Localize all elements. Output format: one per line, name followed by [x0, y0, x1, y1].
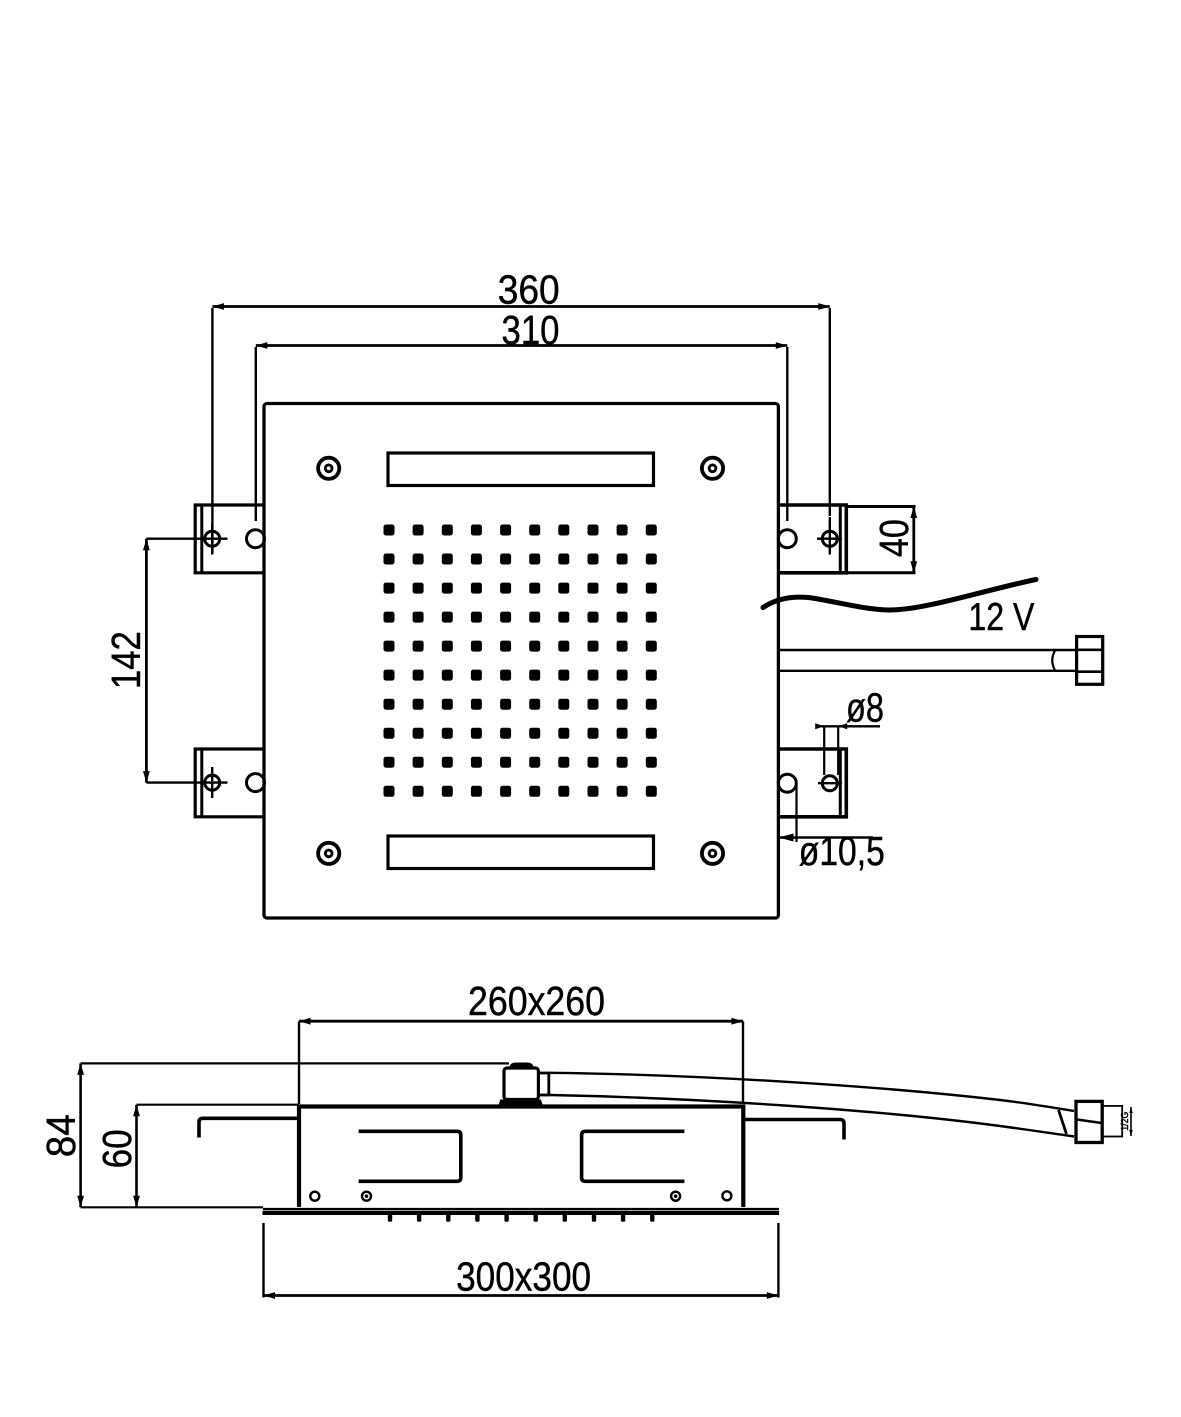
left wiring slot (open left) — [359, 1131, 461, 1181]
upper-right bracket screw hole (crosshair) — [822, 531, 837, 546]
svg-text:1/2G: 1/2G — [1119, 1112, 1131, 1131]
lower-left bracket screw hole (crosshair) — [205, 775, 220, 790]
pipe ferrule arc — [1052, 651, 1055, 671]
upper-left bracket hole O — [247, 530, 265, 548]
svg-text:40: 40 — [871, 519, 917, 557]
threaded end 1/2G — [1102, 1106, 1122, 1137]
dimension 260x260 (housing size) — [298, 1021, 300, 1104]
svg-text:360: 360 — [498, 267, 560, 313]
dimension 60 (housing depth) — [137, 1104, 300, 1106]
right wiring slot (open right) — [582, 1131, 685, 1181]
dimension 310 — [255, 347, 257, 521]
flexible hose (section view) — [550, 1073, 1074, 1111]
svg-text:12 V: 12 V — [968, 596, 1034, 639]
svg-text:60: 60 — [94, 1129, 140, 1168]
left ceiling mounting arm — [199, 1118, 298, 1137]
nozzle ticks under plate — [388, 1214, 655, 1222]
elbow neck — [538, 1073, 548, 1095]
main square shower head body (top view) — [264, 404, 778, 919]
corner screw at (328.7,853.4) — [318, 843, 339, 864]
lower-left bracket hole O — [247, 774, 265, 792]
svg-text:84: 84 — [38, 1114, 84, 1157]
upper-right bracket hole O — [778, 530, 796, 548]
water supply pipe — [780, 649, 1077, 651]
lower-right bracket hole O — [778, 774, 796, 792]
dimension 84 (total depth) — [81, 1062, 509, 1064]
dimension ø8 (screw hole dia) — [817, 725, 880, 727]
water inlet flange (dark) — [499, 1100, 543, 1105]
water inlet block — [504, 1068, 538, 1100]
water inlet cap (dark) — [509, 1063, 534, 1069]
dimension ø10,5 (hole dia) — [779, 836, 874, 838]
lower-right mounting bracket — [778, 749, 846, 817]
shower face plate — [263, 1208, 779, 1210]
dimension 360 — [211, 308, 213, 553]
svg-text:310: 310 — [502, 307, 560, 353]
nozzle grid 10x10 — [384, 525, 657, 797]
bottom slot (light diffuser opening) — [388, 836, 654, 869]
dimension 40 (bracket width) — [848, 505, 916, 508]
dimension 300x300 (face plate size) — [262, 1223, 264, 1298]
svg-text:ø10,5: ø10,5 — [799, 828, 885, 874]
dimension 142 — [145, 539, 148, 783]
top slot (light diffuser opening) — [388, 453, 654, 486]
housing rivet holes — [310, 1192, 319, 1201]
corner screw at (712.5,853.4) — [702, 843, 723, 864]
svg-text:260x260: 260x260 — [468, 978, 605, 1024]
svg-text:300x300: 300x300 — [456, 1254, 591, 1300]
svg-text:142: 142 — [103, 631, 149, 689]
recessed housing box (section) — [299, 1107, 743, 1208]
lower-left mounting bracket — [195, 749, 264, 817]
svg-text:ø8: ø8 — [846, 685, 884, 731]
corner screw at (712.5,468.3) — [702, 458, 723, 479]
lower-right bracket screw hole (crosshair) — [822, 776, 837, 791]
upper-left bracket screw hole (crosshair) — [205, 531, 220, 546]
hose nut (section) — [1076, 1101, 1102, 1142]
12 V power cable (wavy) — [763, 580, 1036, 611]
pipe nut fitting — [1077, 637, 1103, 685]
right ceiling mounting arm — [744, 1120, 844, 1140]
upper-right mounting bracket — [778, 505, 846, 573]
upper-left mounting bracket — [195, 505, 264, 573]
hose end tick — [1059, 1110, 1067, 1134]
corner screw at (328.7,468.3) — [318, 458, 339, 479]
